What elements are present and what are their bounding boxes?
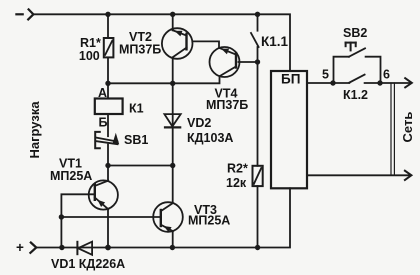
svg-text:МП37Б: МП37Б [119,43,161,57]
svg-text:VD1 КД226А: VD1 КД226А [51,257,125,271]
svg-text:К1.1: К1.1 [261,34,288,49]
svg-text:SB1: SB1 [124,133,148,147]
svg-text:А: А [98,86,107,100]
svg-text:5: 5 [322,68,329,82]
svg-text:SB2: SB2 [343,26,367,40]
svg-text:МП25А: МП25А [50,169,92,183]
svg-text:МП25А: МП25А [188,214,230,228]
svg-text:К1.2: К1.2 [343,88,368,102]
svg-text:Б: Б [99,116,108,130]
svg-text:12к: 12к [226,176,247,190]
svg-text:Нагрузка: Нагрузка [27,101,42,159]
svg-text:МП37Б: МП37Б [206,98,248,112]
svg-text:Сеть: Сеть [400,112,415,143]
svg-text:6: 6 [383,68,390,82]
svg-text:R2*: R2* [227,162,248,176]
svg-text:R1*: R1* [80,36,101,50]
svg-text:+: + [16,240,24,255]
svg-text:КД103А: КД103А [187,131,233,145]
svg-text:VD2: VD2 [187,116,211,130]
svg-text:100: 100 [79,49,100,63]
svg-text:К1: К1 [129,102,144,116]
svg-text:БП: БП [281,72,300,87]
